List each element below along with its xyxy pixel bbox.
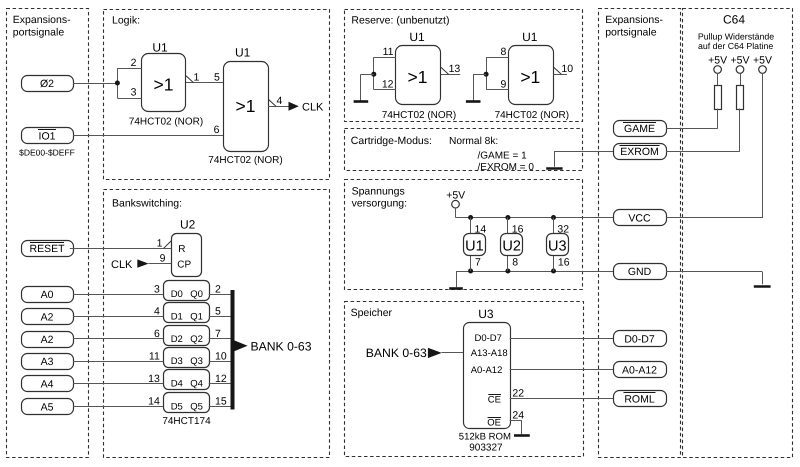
svg-text:D0-D7: D0-D7 xyxy=(624,334,655,346)
svg-text:14: 14 xyxy=(148,396,160,408)
svg-text:Q4: Q4 xyxy=(190,379,203,390)
svg-text:A0-A12: A0-A12 xyxy=(622,365,657,377)
svg-text:903327: 903327 xyxy=(469,443,503,454)
svg-text:>1: >1 xyxy=(520,67,540,87)
svg-text:Spannungs: Spannungs xyxy=(352,186,405,198)
svg-text:Logik:: Logik: xyxy=(112,15,140,27)
svg-text:+5V: +5V xyxy=(708,54,727,66)
svg-text:16: 16 xyxy=(558,257,570,269)
svg-text:RESET: RESET xyxy=(29,243,65,255)
svg-text:512kB ROM: 512kB ROM xyxy=(459,432,511,443)
svg-text:U1: U1 xyxy=(152,41,168,55)
svg-text:13: 13 xyxy=(449,63,461,75)
svg-text:U3: U3 xyxy=(478,307,494,321)
svg-text:11: 11 xyxy=(383,46,394,58)
svg-text:BANK 0-63: BANK 0-63 xyxy=(251,340,312,354)
svg-text:portsignale: portsignale xyxy=(605,26,657,38)
svg-text:CLK: CLK xyxy=(302,101,324,113)
svg-text:C64: C64 xyxy=(723,13,745,27)
svg-text:Speicher: Speicher xyxy=(351,307,393,319)
svg-text:8: 8 xyxy=(512,257,518,269)
svg-text:5: 5 xyxy=(215,306,221,318)
svg-text:9: 9 xyxy=(500,79,506,91)
svg-text:4: 4 xyxy=(277,95,283,107)
svg-text:+5V: +5V xyxy=(446,190,465,202)
svg-text:74HCT02 (NOR): 74HCT02 (NOR) xyxy=(208,155,282,166)
svg-text:R: R xyxy=(178,244,185,255)
svg-text:A0-A12: A0-A12 xyxy=(471,365,503,376)
svg-text:2: 2 xyxy=(131,57,137,69)
svg-text:>1: >1 xyxy=(236,96,256,116)
svg-text:A5: A5 xyxy=(41,401,54,413)
svg-text:BANK 0-63: BANK 0-63 xyxy=(366,346,427,360)
svg-text:VCC: VCC xyxy=(628,213,651,225)
svg-text:GAME: GAME xyxy=(624,123,655,135)
svg-text:CP: CP xyxy=(177,260,191,271)
svg-text:12: 12 xyxy=(382,79,394,91)
svg-text:D4: D4 xyxy=(171,379,183,390)
svg-text:2: 2 xyxy=(215,283,221,295)
svg-text:3: 3 xyxy=(131,87,137,99)
svg-text:CLK: CLK xyxy=(111,259,133,271)
svg-text:D3: D3 xyxy=(171,356,183,367)
svg-text:Q0: Q0 xyxy=(190,289,203,300)
svg-text:11: 11 xyxy=(149,351,160,363)
svg-text:+5V: +5V xyxy=(753,54,772,66)
svg-text:A2: A2 xyxy=(41,334,54,346)
svg-text:A3: A3 xyxy=(41,356,54,368)
svg-text:74HCT02 (NOR): 74HCT02 (NOR) xyxy=(495,110,569,121)
svg-text:+5V: +5V xyxy=(731,54,750,66)
svg-text:7: 7 xyxy=(215,328,221,340)
svg-text:22: 22 xyxy=(512,387,524,399)
svg-text:/EXROM = 0: /EXROM = 0 xyxy=(478,162,535,173)
svg-text:15: 15 xyxy=(215,396,227,408)
svg-text:Q3: Q3 xyxy=(190,356,203,367)
svg-text:1: 1 xyxy=(194,72,200,84)
svg-text:13: 13 xyxy=(148,373,160,385)
svg-text:32: 32 xyxy=(557,224,569,236)
svg-text:4: 4 xyxy=(154,306,160,318)
svg-text:7: 7 xyxy=(475,257,481,269)
svg-text:OE: OE xyxy=(487,418,501,429)
svg-text:Expansions-: Expansions- xyxy=(13,14,71,26)
svg-text:>1: >1 xyxy=(154,74,174,94)
svg-text:9: 9 xyxy=(160,253,166,265)
svg-text:EXROM: EXROM xyxy=(620,146,659,158)
svg-text:A13-A18: A13-A18 xyxy=(471,348,508,359)
svg-text:D1: D1 xyxy=(171,311,183,322)
svg-text:Pullup Widerstände: Pullup Widerstände xyxy=(698,31,774,41)
svg-text:U1: U1 xyxy=(522,30,538,44)
svg-text:D5: D5 xyxy=(171,401,183,412)
svg-text:12: 12 xyxy=(215,373,227,385)
svg-text:A4: A4 xyxy=(41,379,54,391)
svg-text:24: 24 xyxy=(512,409,524,421)
svg-text:GND: GND xyxy=(628,266,652,278)
svg-text:auf der C64 Platine: auf der C64 Platine xyxy=(698,41,773,51)
svg-text:Ø2: Ø2 xyxy=(40,78,54,90)
svg-text:A2: A2 xyxy=(41,311,54,323)
svg-text:U3: U3 xyxy=(548,238,567,254)
svg-text:Q2: Q2 xyxy=(190,334,203,345)
svg-text:6: 6 xyxy=(154,328,160,340)
svg-text:16: 16 xyxy=(512,224,524,236)
svg-text:U1: U1 xyxy=(235,46,251,60)
svg-text:14: 14 xyxy=(475,224,487,236)
svg-text:>1: >1 xyxy=(408,67,428,87)
svg-text:U1: U1 xyxy=(465,238,484,254)
svg-text:6: 6 xyxy=(214,124,220,136)
svg-text:74HCT02 (NOR): 74HCT02 (NOR) xyxy=(382,110,456,121)
svg-text:Bankswitching:: Bankswitching: xyxy=(112,198,182,210)
svg-text:portsignale: portsignale xyxy=(13,26,65,38)
svg-text:D2: D2 xyxy=(171,334,183,345)
svg-text:D0: D0 xyxy=(171,289,183,300)
svg-text:A0: A0 xyxy=(41,289,54,301)
svg-text:ROML: ROML xyxy=(624,394,654,406)
svg-text:U2: U2 xyxy=(502,238,521,254)
svg-text:versorgung:: versorgung: xyxy=(352,198,407,210)
svg-text:U1: U1 xyxy=(409,30,425,44)
svg-text:Cartridge-Modus:: Cartridge-Modus: xyxy=(351,135,432,147)
svg-text:10: 10 xyxy=(215,351,227,363)
svg-text:CE: CE xyxy=(488,395,501,406)
svg-text:Q5: Q5 xyxy=(190,401,203,412)
svg-text:Q1: Q1 xyxy=(190,311,203,322)
svg-text:74HCT174: 74HCT174 xyxy=(162,416,211,427)
svg-text:Expansions-: Expansions- xyxy=(605,14,663,26)
svg-text:$DE00-$DEFF: $DE00-$DEFF xyxy=(19,148,75,158)
svg-text:Reserve: (unbenutzt): Reserve: (unbenutzt) xyxy=(351,15,449,27)
svg-text:1: 1 xyxy=(157,237,163,249)
svg-text:5: 5 xyxy=(214,72,220,84)
svg-text:D0-D7: D0-D7 xyxy=(475,333,502,344)
svg-text:8: 8 xyxy=(500,46,506,58)
svg-text:Normal 8k:: Normal 8k: xyxy=(449,136,498,147)
svg-text:/GAME = 1: /GAME = 1 xyxy=(478,151,528,162)
svg-text:10: 10 xyxy=(561,63,573,75)
svg-text:U2: U2 xyxy=(180,218,196,232)
svg-text:IO1: IO1 xyxy=(39,131,56,143)
svg-text:74HCT02 (NOR): 74HCT02 (NOR) xyxy=(129,117,203,128)
svg-text:3: 3 xyxy=(154,283,160,295)
